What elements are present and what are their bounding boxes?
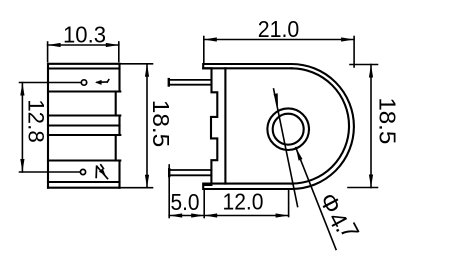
pin 2 bottom line (169, 174, 211, 176)
left view bottom edge (48, 187, 120, 189)
pin 1 end cap (168, 79, 170, 85)
dim 12.8 arrow down (20, 159, 24, 172)
dim 18.5R extension top (350, 64, 378, 66)
dim 10.3 arrow right (106, 43, 119, 47)
svg-text:21.0: 21.0 (258, 16, 300, 42)
dim 12.0 arrow left (204, 213, 217, 217)
dim 18.5R arrow up (369, 65, 373, 78)
dim 21.0 line (204, 39, 354, 41)
leader line A through hole (274, 89, 298, 207)
svg-text:12.0: 12.0 (223, 189, 264, 215)
svg-text:10.3: 10.3 (63, 22, 106, 48)
dim 5.0 arrow left (169, 213, 182, 217)
case inner left edge (224, 68, 226, 183)
leader B arrowhead (296, 148, 303, 161)
dim 18.5R arrow down (369, 175, 373, 188)
dim 5.0 arrow right (191, 213, 204, 217)
pin 2 end cap (168, 169, 170, 176)
left view right edge bottom block (118, 161, 120, 188)
dim 12.0 arrow right (276, 213, 289, 217)
case inner arc (291, 68, 349, 183)
left view right edge middle flange (118, 116, 120, 136)
left view top block bottom line (48, 90, 120, 92)
dim 10.3 extension line left (47, 42, 49, 62)
left view right edge top block (118, 64, 120, 92)
case outer profile (203, 64, 354, 189)
svg-text:12.8: 12.8 (24, 99, 49, 143)
dim bottom line (169, 215, 288, 217)
dim bottom extension left (pin2 end) (168, 165, 170, 218)
dim 21.0 extension left (203, 37, 205, 64)
left view middle flange bottom line (48, 134, 120, 136)
pin hole top circle (81, 80, 86, 85)
case inner top lip line (203, 67, 291, 69)
left view middle flange top line (48, 114, 120, 116)
pin 2 top line (169, 169, 211, 171)
dim bottom extension right (hole center) (288, 191, 290, 217)
pin hole bottom circle (80, 169, 85, 174)
dim 18.5R extension bottom (348, 187, 378, 189)
svg-text:5.0: 5.0 (171, 189, 200, 215)
dim 12.8 line (21, 83, 23, 173)
dim 18.5L arrow down (145, 175, 149, 188)
winding arrow bottom (96, 165, 107, 179)
left view bottom lip line (48, 181, 120, 183)
dim 12.8 arrow up (20, 83, 24, 96)
dim 18.5L extension top (121, 63, 153, 65)
dim 21.0 arrow left (204, 37, 217, 41)
leader line B to text (296, 148, 336, 250)
left view top edge (48, 63, 120, 65)
pin hole top leader line (20, 82, 82, 84)
left view window2 right edge (115, 135, 117, 161)
pin 1 bottom line (169, 84, 212, 86)
left view bottom block top line (48, 159, 120, 161)
hole inner circle (273, 114, 304, 145)
pin 1 top line (169, 79, 212, 81)
leader A arrowhead (274, 93, 279, 106)
case inner bottom line (203, 183, 291, 185)
left view left edge (47, 64, 49, 188)
dim 18.5L extension bottom (121, 187, 153, 189)
dim 10.3 extension line right (118, 42, 120, 62)
svg-text:18.5: 18.5 (375, 97, 401, 144)
winding arrow top (97, 80, 109, 83)
hole outer circle (267, 108, 309, 150)
dim 18.5L arrow up (145, 64, 149, 77)
diameter text (rotated) (313, 189, 364, 244)
pin hole bottom leader line (20, 171, 81, 173)
dim 21.0 extension right (353, 37, 355, 68)
dim 18.5R line (370, 65, 372, 188)
svg-text:18.5: 18.5 (148, 100, 174, 148)
left view top lip line (48, 67, 120, 69)
dim 10.3 line (48, 44, 119, 46)
dim 18.5L line (146, 64, 148, 188)
left view middle flange center line (48, 124, 120, 126)
dim 10.3 arrow left (48, 43, 61, 47)
left view window1 right edge (115, 92, 117, 116)
dim 21.0 arrow right (341, 37, 354, 41)
dim bottom extension middle (203, 190, 205, 218)
